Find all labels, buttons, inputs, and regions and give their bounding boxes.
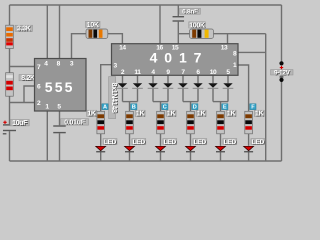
- wire: diode pair bus for channel C: [153, 101, 168, 103]
- node E output marker: [222, 104, 228, 111]
- diode D8 1N4148: [223, 83, 234, 89]
- wire: R4 right lead to pin 13 and right ground drop: [214, 33, 266, 35]
- wire: channel C stem from bus to resistor: [160, 102, 162, 111]
- wire: right ground drop down to ground rail: [265, 34, 267, 161]
- pin 1 label of U1: [45, 104, 49, 111]
- text label LED F: [251, 139, 265, 147]
- resistor R4 100K (brown-black-yellow): [190, 29, 214, 38]
- value label 1K of channel D: [196, 110, 206, 118]
- svg-text:LED: LED: [252, 139, 265, 146]
- pin 1 label of U2: [233, 62, 237, 69]
- svg-text:1K: 1K: [136, 111, 145, 118]
- wire: diode D6 cathode down to pair bus: [197, 89, 199, 102]
- svg-text:16: 16: [156, 45, 163, 52]
- text label LED B: [132, 139, 146, 147]
- value label R1 3.3K: [15, 25, 33, 33]
- svg-text:LED: LED: [104, 139, 117, 146]
- diode D7 1N4148: [208, 83, 219, 89]
- polarity minus mark of C1: [3, 133, 7, 134]
- LED C: [156, 146, 166, 152]
- value label 1K of channel A: [87, 110, 97, 118]
- battery minus mark: [280, 76, 284, 77]
- svg-text:10: 10: [210, 69, 217, 76]
- wire: diode D5 cathode down to pair bus: [182, 89, 184, 102]
- wire: channel E resistor to LED: [220, 134, 222, 146]
- wire: channel F resistor to LED: [248, 134, 250, 146]
- wire: +V rail down to capacitor C3 top plate: [177, 5, 179, 16]
- value label R2 8.2K: [19, 75, 37, 83]
- wire: left supply column top rail down to resistor R1: [9, 5, 11, 26]
- wire: 555 pin 2 horizontal to left column: [10, 102, 35, 104]
- wire: R1 bottom to R2 top (junction to 555 pin 7): [9, 49, 11, 73]
- wire: channel A resistor to LED: [100, 134, 102, 146]
- wire: channel F LED cathode to ground rail: [248, 152, 250, 161]
- wire: 4017 output pin lead to diode D4: [167, 75, 169, 83]
- wire: 555 pin 8 up to +V rail: [59, 5, 61, 59]
- svg-text:3.3K: 3.3K: [17, 26, 31, 33]
- svg-text:100K: 100K: [189, 22, 205, 29]
- battery negative terminal dot: [279, 78, 283, 82]
- wire: 4017 pin 13 stub down: [227, 34, 229, 44]
- capacitor C1 10uF electrolytic: [3, 124, 16, 131]
- wire: 555 pin 4 up to +V rail: [46, 5, 48, 59]
- wire: 4017 output pin lead to diode D5: [182, 75, 184, 83]
- pin 6 label of U1: [37, 84, 41, 91]
- wire: battery negative column to ground rail: [281, 82, 283, 161]
- svg-text:10K: 10K: [87, 22, 99, 29]
- LED D: [186, 146, 196, 152]
- pin 8 label of U2: [233, 51, 237, 58]
- wire: diode D4 cathode down to pair bus: [167, 89, 169, 102]
- pin 5 label of U1: [57, 104, 61, 111]
- pin 4 label of U2 (bottom row): [151, 69, 155, 76]
- wire: 4017 pin 16 up to +V rail: [159, 5, 161, 44]
- wire: node pin7 junction to 555 pin 7: [10, 66, 35, 68]
- counter IC U2 4017 body: [112, 44, 239, 76]
- wire: C1 bottom down to ground rail: [9, 131, 11, 161]
- value label C1 10uF: [10, 120, 29, 128]
- node D output marker: [192, 104, 198, 111]
- resistor R-E 1K (brown-black-red): [217, 111, 225, 134]
- svg-text:555: 555: [45, 79, 75, 95]
- diode D1 1N4148: [117, 83, 128, 89]
- pin 15 label of U2: [172, 45, 179, 52]
- wire: channel B resistor to LED: [129, 134, 131, 146]
- pin 11 label of U2 (bottom row): [134, 69, 141, 76]
- pin 16 label of U2: [156, 45, 163, 52]
- svg-text:LED: LED: [133, 139, 146, 146]
- svg-text:0.01uF: 0.01uF: [64, 119, 85, 126]
- resistor R2 8.2K (gray-red-red): [6, 73, 14, 97]
- wire: 555 pin 3 up then right to resistor R3: [72, 34, 87, 59]
- svg-text:A: A: [103, 105, 107, 111]
- wire: 555 pin 5 down to capacitor C2: [59, 111, 61, 125]
- text label LED D: [193, 139, 207, 147]
- wire: diode pair bus for channel B: [123, 101, 138, 103]
- wire: channel E LED cathode to ground rail: [220, 152, 222, 161]
- text label LED E: [223, 139, 237, 147]
- wire: channel A LED cathode to ground rail: [100, 152, 102, 161]
- wire: channel C LED cathode to ground rail: [160, 152, 162, 161]
- pin 7 label of U1: [37, 64, 41, 71]
- value label 1K of channel B: [135, 110, 145, 118]
- pin 14 label of U2: [119, 45, 126, 52]
- battery voltage label 9-12V: [271, 69, 293, 77]
- value label R4 100K: [189, 22, 206, 30]
- pin 3 label of U2: [114, 62, 118, 69]
- wire: diode pair bus for channel D: [183, 101, 198, 103]
- wire: channel E stem from bus to resistor: [220, 102, 222, 111]
- wire: 4017 output pin lead to diode D6: [197, 75, 199, 83]
- wire: channel D stem from bus to resistor: [190, 102, 192, 111]
- wire: 4017 output pin lead to diode D1: [122, 75, 124, 83]
- pin 3 label of U1: [70, 60, 74, 67]
- pin 7 label of U2 (bottom row): [181, 69, 185, 76]
- diode D5 1N4148: [178, 83, 189, 89]
- value label R3 10K: [86, 21, 101, 29]
- value label C3 6.8nF: [180, 8, 201, 16]
- svg-text:LED: LED: [224, 139, 237, 146]
- LED B: [125, 146, 135, 152]
- wire: 555 pin 6 link down to pin 2 wire: [24, 86, 35, 103]
- text label LED A: [103, 139, 117, 147]
- wire: 4017 output pin lead to diode D2: [137, 75, 139, 83]
- wire: diode D8 cathode down to pair bus: [227, 89, 229, 102]
- svg-text:1K: 1K: [227, 111, 236, 118]
- wire: channel D LED cathode to ground rail: [190, 152, 192, 161]
- wire: channel C resistor to LED: [160, 134, 162, 146]
- wire: 555 pin 1 down to ground rail: [46, 111, 48, 161]
- wire: +V top rail from left column to battery positive: [10, 4, 282, 6]
- wire: 4017 pin 3 left then down to channel A: [101, 65, 112, 111]
- node F output marker: [250, 104, 256, 111]
- value label 1K of channel C: [166, 110, 176, 118]
- wire: ground bottom rail: [10, 160, 282, 162]
- svg-text:1K: 1K: [255, 111, 264, 118]
- wire: diode D2 cathode down to pair bus: [137, 89, 139, 102]
- LED A: [96, 146, 106, 152]
- diode D3 1N4148: [148, 83, 159, 89]
- wire: 4017 output pin lead to diode D3: [152, 75, 154, 83]
- diode D4 1N4148: [163, 83, 174, 89]
- svg-text:LED: LED: [164, 139, 177, 146]
- pin 2 label of U1: [37, 100, 41, 107]
- pin 13 label of U2: [221, 45, 228, 52]
- text label LED C: [163, 139, 177, 147]
- wire: 4017 pin 1 right then down to channel F: [238, 65, 249, 111]
- svg-text:6.8nF: 6.8nF: [182, 8, 198, 15]
- LED F: [244, 146, 254, 152]
- wire: diode pair bus for channel E: [213, 101, 228, 103]
- wire: channel B LED cathode to ground rail: [129, 152, 131, 161]
- resistor R-A 1K (brown-black-red): [97, 111, 105, 134]
- capacitor C2 0.01uF: [53, 125, 66, 133]
- svg-text:1K: 1K: [197, 111, 206, 118]
- svg-text:4017: 4017: [150, 50, 209, 66]
- svg-text:10uF: 10uF: [12, 120, 28, 127]
- svg-text:11: 11: [134, 69, 141, 76]
- wire: diode D7 cathode down to pair bus: [212, 89, 214, 102]
- resistor R-C 1K (brown-black-red): [157, 111, 165, 134]
- wire: R2 bottom down to capacitor C1 top: [9, 96, 11, 124]
- wire: channel B stem from bus to resistor: [129, 102, 131, 111]
- wire: C3 bottom to 4017 pin 15 and tee to R4: [177, 22, 179, 44]
- node B output marker: [131, 104, 137, 111]
- svg-text:8x1N4148: 8x1N4148: [110, 83, 117, 113]
- wire: pin15 node to resistor R4 left lead: [178, 33, 189, 35]
- pin 4 label of U1: [44, 60, 48, 67]
- wire: battery positive column from +V rail: [281, 5, 283, 62]
- diode D2 1N4148: [132, 83, 143, 89]
- node C output marker: [162, 104, 168, 111]
- svg-text:9-12V: 9-12V: [274, 69, 291, 76]
- svg-text:1K: 1K: [87, 111, 96, 118]
- node A output marker: [102, 104, 108, 111]
- wire: 4017 pin 8 to right ground drop: [238, 51, 266, 53]
- svg-text:15: 15: [172, 45, 179, 52]
- svg-text:13: 13: [221, 45, 228, 52]
- label 8x1N4148 for diode bank: [109, 77, 118, 119]
- LED E: [216, 146, 226, 152]
- pin 8 label of U1: [57, 60, 61, 67]
- pin 9 label of U2 (bottom row): [166, 69, 170, 76]
- resistor R3 10K (brown-black-orange): [86, 29, 108, 38]
- capacitor C3 6.8nF: [173, 16, 185, 22]
- battery plus mark: [280, 66, 283, 69]
- resistor R1 3.3K (orange-orange-red): [6, 25, 14, 48]
- diode D6 1N4148: [193, 83, 204, 89]
- op-amp/timer IC U1 555 body: [35, 59, 87, 112]
- wire: channel D resistor to LED: [190, 134, 192, 146]
- wire: 4017 output pin lead to diode D7: [212, 75, 214, 83]
- wire: 4017 output pin lead to diode D8: [227, 75, 229, 83]
- svg-text:LED: LED: [194, 139, 207, 146]
- pin 2 label of U2 (bottom row): [121, 69, 125, 76]
- pin 6 label of U2 (bottom row): [196, 69, 200, 76]
- pin 10 label of U2 (bottom row): [210, 69, 217, 76]
- wire: diode D1 cathode down to pair bus: [122, 89, 124, 102]
- battery positive terminal dot: [279, 61, 283, 65]
- svg-text:8.2K: 8.2K: [21, 75, 35, 82]
- svg-text:1K: 1K: [167, 111, 176, 118]
- resistor R-B 1K (brown-black-red): [126, 111, 134, 134]
- wire: R3 right lead to 4017 pin 14 clock: [108, 34, 123, 44]
- polarity plus mark of C1: [3, 121, 6, 124]
- pin 5 label of U2 (bottom row): [226, 69, 230, 76]
- value label 1K of channel E: [226, 110, 236, 118]
- value label C2 0.01uF: [61, 119, 89, 127]
- value label 1K of channel F: [254, 110, 264, 118]
- svg-text:14: 14: [119, 45, 126, 52]
- resistor R-F 1K (brown-black-red): [245, 111, 253, 134]
- wire: C2 bottom down to ground rail: [59, 133, 61, 161]
- wire: diode D3 cathode down to pair bus: [152, 89, 154, 102]
- resistor R-D 1K (brown-black-red): [187, 111, 195, 134]
